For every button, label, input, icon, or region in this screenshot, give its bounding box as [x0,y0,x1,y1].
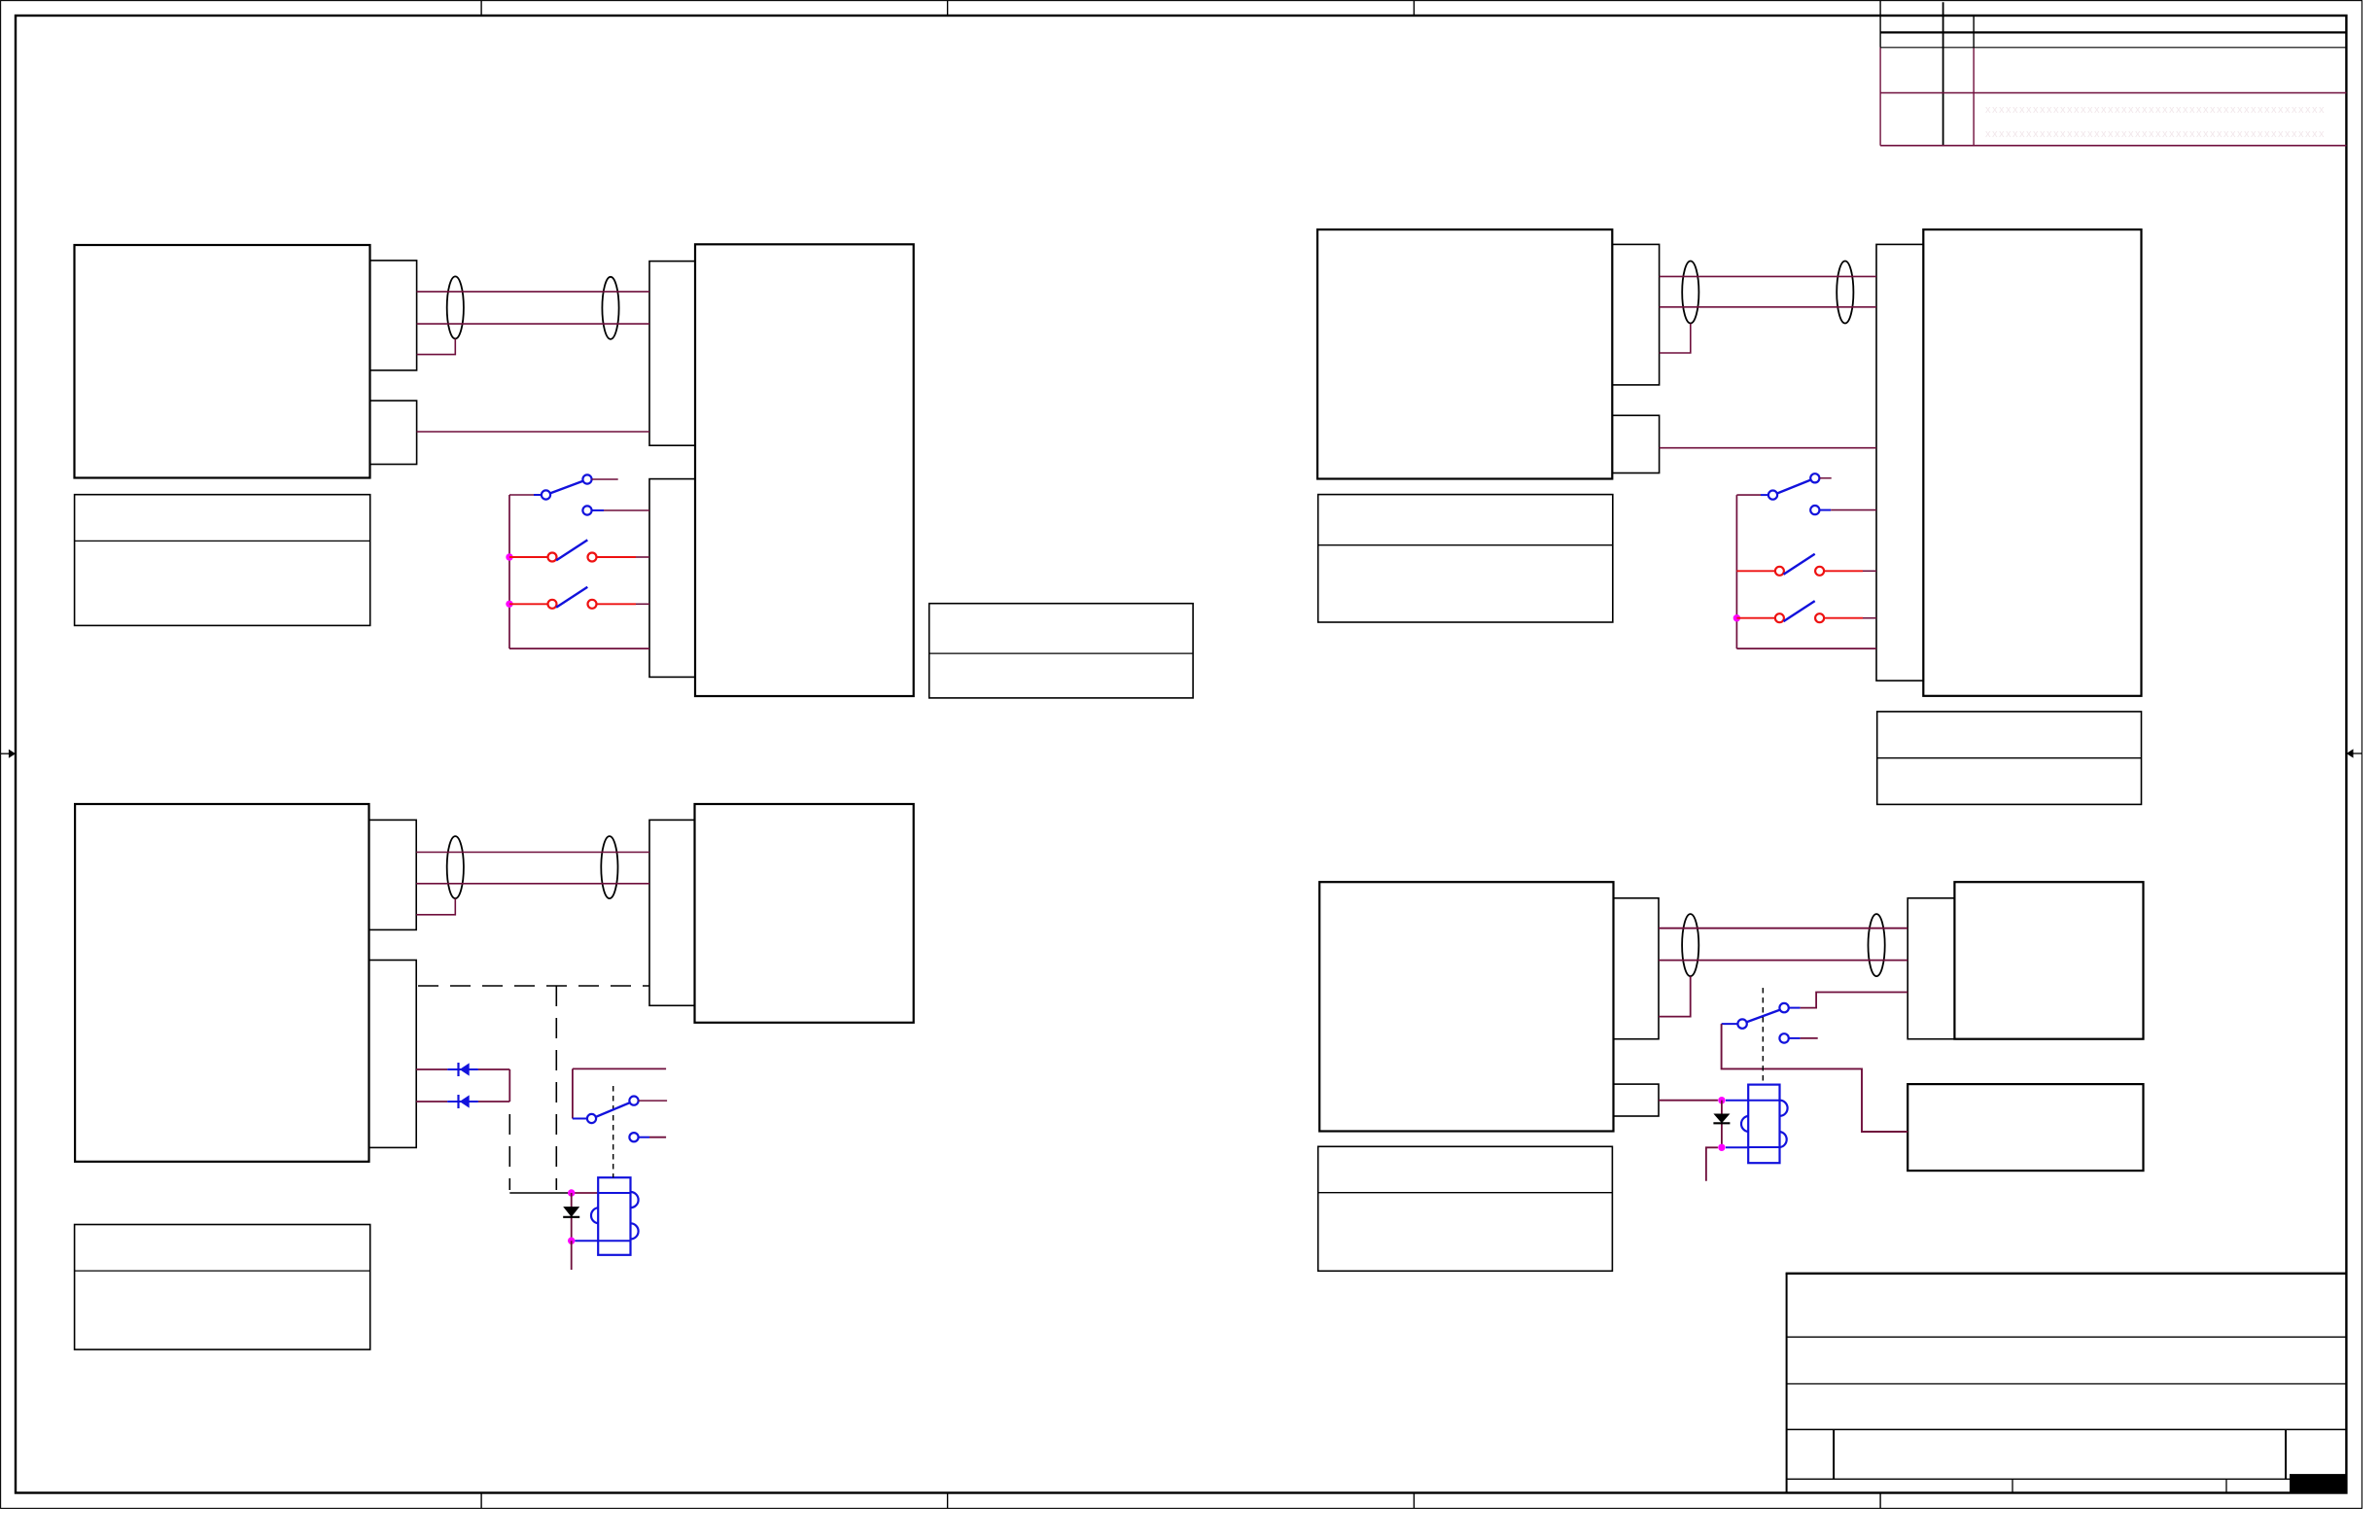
title block top line [1786,1273,2347,1275]
title block cell divider d [2225,1479,2227,1492]
junction node G3-a [568,1189,575,1196]
unit box B2 [1923,229,2141,696]
wire C w1 [416,852,649,854]
title block cell divider a [1833,1429,1835,1479]
switch S2 right lead [597,556,637,558]
switch S2 wire to stub [636,556,649,558]
connector stub A1-P1 [370,261,417,370]
wire A w2 [417,323,649,325]
wire S8 common run [1722,1024,1908,1132]
relay contact S7 common [587,1114,596,1123]
unit box D3 [1907,1084,2143,1171]
junction node G4-a [1718,1097,1725,1103]
relay contact S7 blade [596,1102,630,1117]
cable table C1 [75,1225,370,1350]
switch S4 NC wire [1831,509,1876,511]
title block row line 4 [1787,1478,2347,1480]
switch S2 right contact [588,553,597,562]
switch S3 blade [556,587,587,608]
connector stub B1-P1 [1612,244,1659,385]
cable shield ellipse B-left [1682,262,1698,324]
wire D w2 [1659,960,1907,962]
wire S8 NO to stub [1801,993,1908,1008]
connector stub B2-P1 [1876,244,1923,681]
connector stub D1-P1 [1614,898,1660,1039]
switch S1 blue common lead [534,494,542,496]
junction node G1-b [506,601,512,608]
wire B w3 [1660,447,1876,449]
wire coil K2 feed [1659,1100,1718,1102]
unit box A1 [75,245,370,478]
wire coil supply vertical G4 [1721,1101,1723,1148]
zone tick bottom 4 [1879,1493,1881,1509]
title block [1786,1274,2347,1493]
wire A w1 [417,291,649,293]
switch S1 common contact [542,490,550,499]
wire C shield drop [416,898,455,915]
cable shield ellipse A-right [602,277,618,339]
zone tick top 1 [480,1,482,16]
cable shield ellipse D-right [1869,914,1885,976]
suppression diode D4 [1713,1114,1730,1124]
wire coil supply vertical [571,1193,573,1241]
relay contact S7 NO stub [639,1100,668,1102]
suppression diode D3 [563,1207,579,1217]
wire G1 switch feed [509,494,534,496]
switch S3 left lead [509,603,547,605]
relay contact S8 blade [1747,1010,1780,1022]
relay contact S8 NO lead blue [1789,1007,1801,1009]
wire B w1 [1660,275,1876,277]
wire bus G2 bottom [1736,647,1876,649]
wire node G4-b left drop [1706,1147,1718,1180]
revision block left edge lower [1879,48,1881,146]
connector stub A2-P1 [649,262,695,446]
revision block bottom line [1880,145,2346,147]
wire B shield drop [1660,324,1691,353]
switch S1 contact NO [582,474,591,483]
switch S4 blue common lead [1761,494,1768,496]
cable table A1 [75,495,370,626]
unit box D2 [1954,882,2143,1038]
relay contact S7 NC lead [639,1137,649,1138]
relay K2 coil lead top [1726,1100,1748,1102]
cable table D1 [1318,1146,1613,1271]
switch S4 contact NO [1810,473,1819,482]
switch S4 NO stub wire [1819,477,1831,479]
switch S1 NC lead blue [592,509,604,511]
harness dashed line vertical 2 [508,1114,510,1190]
title block row line 3 [1787,1428,2347,1430]
cable shield ellipse B-right [1837,262,1853,324]
left centering arrow [1,750,16,758]
connector stub A2-P2 [649,479,695,678]
switch S6 right lead [1824,617,1863,619]
unit box D1 [1319,882,1613,1131]
revision block column line 2 lower [1973,48,1975,146]
diode D1 [447,1063,478,1076]
cable shield ellipse D-left [1682,914,1698,976]
diode loop vertical wire [508,1069,510,1102]
junction node G3-b [568,1238,575,1244]
wire below node G3-b [571,1241,573,1270]
cable shield ellipse C-left [447,836,464,898]
diode D2 wire right [478,1101,509,1102]
switch S1 contact NC [582,506,591,514]
relay K1 coil [591,1177,639,1255]
revision block left edge upper [1879,1,1881,48]
cable table A2 [929,604,1193,698]
switch S5 right lead [1824,570,1863,572]
switch S1 NC wire [604,509,649,511]
relay K2 coil [1741,1085,1788,1164]
connector stub A1-P2 [370,401,417,464]
switch S6 right contact [1815,613,1824,622]
switch S4 blade [1777,480,1811,494]
harness dashed line vertical 1 [555,986,557,1190]
switch S4 common contact [1768,491,1777,500]
wire bus G1 bottom [509,647,649,649]
switch S3 right contact [588,600,597,609]
harness lead into node [509,1192,568,1194]
cable table B1 divider [1318,544,1613,546]
switch S4 contact NC [1810,506,1819,514]
relay K1 coil lead [575,1240,598,1242]
switch S6 wire to stub [1863,617,1876,619]
title block row line 2 [1787,1382,2347,1384]
zone tick bottom 1 [480,1493,482,1509]
unit box A2 [695,244,914,696]
unit box C2 [695,804,914,1023]
connector stub D2-P1 [1907,898,1954,1039]
relay contact S8 NC lead blue [1789,1037,1801,1039]
switch S1 blade [550,481,583,494]
zone tick bottom 3 [1413,1493,1415,1509]
wire node to relay coil K1 [568,1192,598,1194]
switch S3 right lead [597,603,637,605]
connector stub C1-P2 [369,961,417,1148]
relay contact feed wire vertical [572,1068,574,1118]
diode D2 [447,1095,478,1108]
relay K1 mechanical link dashed [612,1086,614,1177]
wire A w3 [417,431,649,433]
relay contact S8 common [1737,1019,1746,1028]
diode D2 wire left [416,1101,447,1102]
revision block row line thin [1880,47,2346,49]
relay contact S7 common lead [573,1118,587,1120]
diode D1 wire right [478,1068,509,1070]
relay contact S7 NO [629,1097,638,1105]
relay contact S7 NC stub [649,1137,666,1138]
wire A shield drop [417,339,456,355]
switch S2 blade [556,540,587,560]
relay contact S7 NC [629,1133,638,1141]
switch S3 wire to stub [636,603,649,605]
cable table A1 divider [75,540,370,542]
cable shield ellipse C-right [601,836,617,898]
title block cell divider c [2012,1479,2013,1492]
wire C w2 [416,883,649,885]
switch S4 NC lead blue [1819,509,1831,511]
unit box C1 [75,804,368,1162]
switch S6 left contact [1775,613,1784,622]
switch S6 left lead [1736,617,1775,619]
wire D w1 [1659,927,1907,929]
switch S5 left contact [1775,567,1784,576]
title block left edge [1786,1274,1788,1493]
title block filled corner box [2290,1474,2347,1493]
junction node G4-b [1718,1144,1725,1151]
wire G2 switch feed [1736,494,1761,496]
switch S6 blade [1784,601,1815,621]
revision block maroon row line [1880,92,2346,94]
connector stub B1-P2 [1612,415,1659,472]
cable table B1 [1318,495,1613,622]
junction node G2-a [1733,614,1740,621]
switch S5 left lead [1736,570,1775,572]
junction node G1-a [506,553,512,560]
cable shield ellipse A-left [447,276,464,338]
zone tick bottom 2 [947,1493,949,1509]
relay contact S8 NO [1779,1003,1788,1012]
cable table A2 divider [929,652,1193,654]
cable table B2 [1877,712,2142,805]
connector stub C2-P1 [649,820,695,1005]
svg-text:xxxxxxxxxxxxxxxxxxxxxxxxxxxxxx: xxxxxxxxxxxxxxxxxxxxxxxxxxxxxxxxxxxxxxxx… [1985,128,2326,140]
switch S2 left contact [548,553,557,562]
wire bus G2 vertical [1735,495,1737,648]
relay contact S8 NC [1779,1033,1788,1042]
connector stub C1-P1 [369,820,417,929]
relay K2 mechanical link dashed [1762,988,1764,1085]
revision block [1880,1,2346,146]
relay K2 coil lead bottom [1726,1146,1748,1148]
revision block column line [1942,2,1944,145]
switch S5 right contact [1815,567,1824,576]
switch S2 left lead [509,556,547,558]
zone tick top 3 [1413,1,1415,16]
switch S5 wire to stub [1863,570,1876,572]
switch S3 left contact [548,600,557,609]
unit box B1 [1317,229,1612,478]
wire D shield drop [1659,976,1691,1016]
zone tick top 2 [947,1,949,16]
title block cell divider b [2285,1429,2287,1479]
wire bus G1 vertical [508,495,510,648]
wire B w2 [1660,306,1876,308]
switch S5 blade [1784,554,1815,575]
cable table D1 divider [1318,1192,1613,1194]
switch S1 NO stub wire [592,478,618,480]
title block row line 1 [1787,1336,2347,1338]
revision block column line 2 upper [1973,16,1975,48]
cable table B2 divider [1877,757,2142,759]
connector stub D1-P2 [1614,1084,1660,1116]
relay contact S8 common feed blue [1722,1023,1738,1025]
right centering arrow [2346,749,2362,757]
relay contact feed wire top [573,1067,666,1069]
relay contact S8 NC stub [1801,1037,1818,1039]
svg-text:xxxxxxxxxxxxxxxxxxxxxxxxxxxxxx: xxxxxxxxxxxxxxxxxxxxxxxxxxxxxxxxxxxxxxxx… [1985,104,2326,116]
diode D1 wire left [416,1068,447,1070]
revision block row line thick [1880,31,2346,33]
cable table C1 divider [75,1270,370,1272]
harness dashed line horizontal [418,985,649,987]
